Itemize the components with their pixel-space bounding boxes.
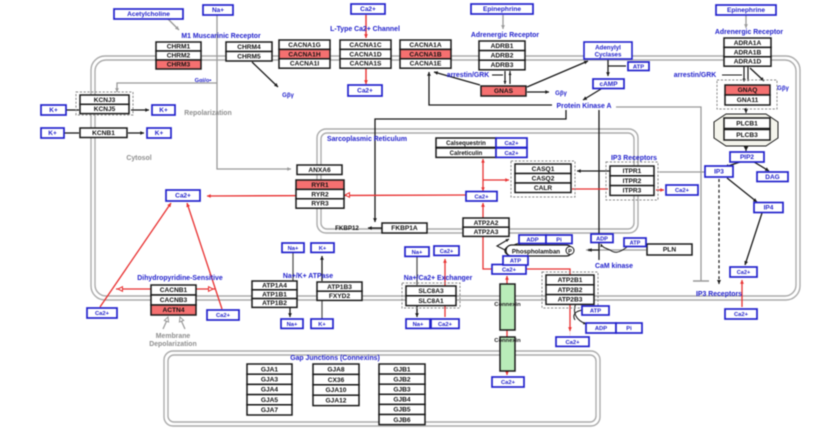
harpoons ADRB-GNAS [505,71,510,84]
ion K+ 1 [41,105,66,115]
svg-text:Ca2+: Ca2+ [474,194,489,200]
svg-text:GJB1: GJB1 [393,366,411,373]
group GNAQ [717,80,777,109]
ion K+ 2 [152,105,175,115]
svg-text:arrestin/GRK: arrestin/GRK [447,72,490,79]
svg-text:K+: K+ [49,107,58,114]
svg-text:GJA12: GJA12 [326,398,347,405]
svg-text:Epinephrine: Epinephrine [727,7,765,14]
wire arrestin to harpoons [492,74,503,76]
SERCA pump ATP2A3 [463,227,509,236]
wire connexin Ca2+ up arrowhead [505,276,509,280]
svg-text:K+: K+ [159,107,168,114]
wire PLN to phospholamban [586,249,646,251]
gap junction GJB GJB5 [379,404,425,414]
ion Na+ NCX top [405,247,429,256]
wire Ca2+ calsequestrin exchange arrowhead [481,159,485,163]
ATP ATP2B [582,306,609,315]
alpha adrenergic receptor ADRA1D [724,57,771,66]
G protein GNA11 [725,95,770,105]
svg-text:CACNA1A: CACNA1A [409,42,441,49]
IP3 box [705,166,733,177]
wire CACNB left [116,288,151,290]
svg-text:cAMP: cAMP [599,81,618,88]
svg-text:Sarcoplasmic Reticulum: Sarcoplasmic Reticulum [327,136,407,143]
wire AC to cAMP arrowhead [606,72,610,76]
wire Ca2+ entry right arrowhead [186,203,190,207]
wire PIP2 to IP3 [725,162,740,167]
wire ATP2B Ca2+ down arrowhead [569,334,571,336]
wire CALR to ITPR3 [572,188,608,190]
ion Ca2+ right out [725,309,757,319]
wire GNAS to adenylyl cyclase [527,61,588,87]
svg-text:ATP2B2: ATP2B2 [558,287,583,294]
NCX SLC8A SLC8A1 [406,296,456,306]
svg-text:ADP: ADP [595,326,607,332]
annexin ANXA6 [297,165,342,175]
connexin channel upper [500,284,515,330]
wire K+ out of pump [321,256,323,281]
svg-text:Na+/Ca2+ Exchanger: Na+/Ca2+ Exchanger [404,275,473,282]
open arrowhead CACNB left [118,287,123,292]
wire fork to GNAQ right arrowhead [760,77,764,81]
wire Ca2+ out of L-type [365,69,367,84]
svg-text:ADRA1A: ADRA1A [734,40,762,47]
ion Ca2+ bottom mid [207,310,239,320]
NCX SLC8A SLC8A3 [406,286,456,296]
wire IP3 to IP3 receptors dashed arrowhead [717,280,721,284]
wire connexin Ca2+ down [506,369,508,375]
wire PIP2 to DAG [754,162,769,171]
svg-text:GJB6: GJB6 [393,417,411,424]
wire GNAS to adenylyl cyclase arrowhead [584,61,588,64]
wire K+ out KCNJ arrowhead [145,108,149,112]
svg-text:GJA8: GJA8 [327,366,345,373]
wire Ca2+ to CASQ group arrowhead [505,178,509,182]
gap junction cell inner [168,355,596,422]
wire cAMP to PKA [583,89,601,100]
svg-text:Acetylcholine: Acetylcholine [127,11,170,18]
gap junction GJA GJA4 [247,384,292,394]
wire CHRM5 to Gbg [252,62,278,87]
L-type channel 1 CACNA1D [340,49,391,58]
svg-text:CASQ1: CASQ1 [532,166,555,173]
svg-text:ADRA1B: ADRA1B [734,49,762,56]
wire PIP2 to IP3 arrowhead [725,164,729,168]
svg-text:Ca2+: Ca2+ [737,270,751,276]
curve ATP-ADP phospholamban [505,243,521,256]
cell membrane inner [95,60,796,296]
sarcoplasmic reticulum inner [321,133,634,229]
wire PKA CaM stub [598,250,600,260]
wire connexin Ca2+ up [506,276,508,284]
gap junction GJB GJB6 [379,415,425,425]
svg-text:Ca2+: Ca2+ [565,340,580,346]
wire epinephrine to ADRA [745,15,747,28]
IP3 receptor ITPR ITPR3 [610,186,654,196]
PMCA ATP2B ATP2B1 [546,275,594,285]
wire FKBP1A to FKBP12 [368,227,382,229]
ADP ATP2B [586,323,616,333]
ion Na+ NCX bottom [406,319,430,328]
group KCNJ [76,92,133,115]
svg-text:Na+: Na+ [288,246,299,252]
svg-text:GNA11: GNA11 [737,97,759,104]
wire Ca2+ entry left [100,203,171,307]
wire PMCA to Ca2+ out [569,331,571,336]
wire phospholamban to ATP2A arrowhead [505,239,509,242]
dihydropyridine CACNB ACTN4 [151,305,196,315]
svg-text:ATP: ATP [630,240,641,246]
ion Na+ top [203,5,233,15]
M1 receptor CHRM CHRM2 [156,51,201,60]
svg-text:GNAS: GNAS [494,88,514,95]
ion Ca2+ bottom left [87,308,117,318]
svg-text:ATP2B3: ATP2B3 [558,297,583,304]
svg-text:Ca2+: Ca2+ [440,249,454,255]
K channel KCNB1 [80,128,127,138]
G protein GNAQ [725,85,770,95]
svg-text:Na+: Na+ [412,250,423,256]
open arrowhead CACNB right [209,287,214,292]
gap junction GJB GJB3 [379,384,425,394]
svg-text:FKBP12: FKBP12 [335,225,359,232]
svg-text:ATP: ATP [633,64,644,70]
wire Na+ out of pump arrowhead [288,313,292,317]
wire epinephrine to ADRA arrowhead [744,24,748,28]
svg-text:Membrane: Membrane [156,333,191,340]
M1 receptor CHRM2grp CHRM4 [226,42,272,52]
ligand epinephrine left [471,4,533,14]
IP3 receptor ITPR ITPR1 [610,166,654,176]
curve ATP2B ATP [574,303,586,324]
svg-text:GJB5: GJB5 [393,407,411,414]
N-type channel CACNA1B [400,49,451,58]
DAG box [757,172,788,182]
svg-text:CX36: CX36 [328,377,345,384]
svg-text:Ca2+: Ca2+ [504,141,519,147]
wire PKA to phospholamban arrowhead [588,248,592,252]
ion Na+ pump bottom [281,319,303,328]
svg-text:Connexin: Connexin [494,338,521,344]
ion Ca2+ NCX bottom [431,319,459,328]
ion K+ pump top [311,243,334,252]
alpha adrenergic receptor ADRA1B [724,47,771,56]
svg-text:Pi: Pi [556,237,562,243]
ion Ca2+ ITPR out [666,185,698,195]
wire NCX Ca2+ in [444,259,446,317]
svg-text:GJA10: GJA10 [326,387,347,394]
wire SERCA pump arrowhead [481,203,485,207]
svg-text:CACNA1S: CACNA1S [350,61,382,68]
svg-text:GJA7: GJA7 [261,407,279,414]
svg-text:ITPR3: ITPR3 [623,188,642,195]
wire PLCB to PIP2 arrowhead [744,147,749,152]
wire phospholamban to ATP2A [497,239,509,251]
svg-text:RYR2: RYR2 [311,191,329,198]
svg-text:ATP1B1: ATP1B1 [262,291,287,298]
wire ITPR1 to CASQ1 [577,170,610,172]
svg-text:GJA5: GJA5 [261,397,279,404]
NaK ATPase beta ATP1B3 [317,282,362,291]
svg-text:IP3 Receptors: IP3 Receptors [611,155,657,162]
wire GNAS to CACNA1E [434,72,480,85]
ryanodine receptor RYR1 [296,180,344,189]
svg-text:ATP: ATP [510,259,521,265]
wire GNAQ to PLCB arrowhead [744,109,749,114]
ion Ca2+ NCX top [434,246,459,255]
wire cAMP to PKA arrowhead [583,96,587,100]
svg-text:CALR: CALR [534,185,553,192]
svg-text:Gap Junctions (Connexins): Gap Junctions (Connexins) [290,355,380,362]
IP3 receptor ITPR ITPR2 [610,176,654,186]
wire IP3 to IP4 [727,178,757,202]
gap junction GJA GJA3 [247,374,292,384]
svg-text:K+: K+ [48,130,57,137]
svg-text:ADP: ADP [526,237,538,243]
svg-text:Ca2+: Ca2+ [502,267,517,273]
svg-text:CACNB3: CACNB3 [160,297,188,304]
ion Ca2+ top [351,4,385,14]
svg-text:RYR1: RYR1 [311,182,329,189]
wire PLN to phospholamban arrowhead [586,248,590,252]
ADP phospholamban [519,235,546,244]
svg-text:Calsequestrin: Calsequestrin [446,141,486,147]
wire PKA to IP3 receptors [616,107,701,281]
svg-text:ATP2B1: ATP2B1 [558,277,583,284]
svg-text:Epinephrine: Epinephrine [483,6,521,13]
ion Ca2+ gap junction [492,377,524,387]
svg-text:ATP1B3: ATP1B3 [327,284,352,291]
ligand acetylcholine [114,9,183,19]
wire PKA to L-type channel arrowhead [427,72,431,76]
wire Na+ influx to ANXA6 [217,15,291,169]
ATP SERCA [503,256,528,265]
svg-text:ANXA6: ANXA6 [308,167,331,174]
wire PKA to phospholamban [588,110,599,250]
svg-text:ACTN4: ACTN4 [163,307,185,314]
svg-text:Ca2+: Ca2+ [357,88,373,95]
group CASQ [511,161,575,197]
wire Na+ into pump [292,252,294,281]
svg-text:Pi: Pi [626,326,632,332]
M1 receptor CHRM CHRM1 [156,42,201,51]
wire IP4 to Ca2+ arrowhead [744,261,748,265]
wire FKBP1A to FKBP12 arrowhead [368,226,372,230]
svg-text:Na+/K+ ATPase: Na+/K+ ATPase [283,273,333,280]
wire Gi/o to KCNJ3 arrowhead [115,88,119,92]
wire PMCA pump [526,269,570,331]
L-type channel 1 CACNA1S [340,59,391,68]
group ITPR [606,162,658,200]
T-type channel CACNA1I [279,59,330,68]
ion Ca2+ calsequestrin [496,138,527,147]
NaK ATPase alpha ATP1A4 [252,281,297,290]
wire GNAS to Gbg arrowhead [545,90,549,94]
L-type channel 1 CACNA1C [340,40,391,49]
svg-text:GJB4: GJB4 [393,397,411,404]
svg-text:Dihydropyridine-Sensitive: Dihydropyridine-Sensitive [137,275,223,282]
wire arrestin2 to harpoons [722,74,742,76]
ADP CaM [591,234,613,243]
dihydropyridine CACNB CACNB1 [151,285,196,295]
svg-text:RYR3: RYR3 [311,201,329,208]
gap junction GJA GJA1 [247,364,292,374]
NaK ATPase alpha ATP1B2 [252,299,297,308]
svg-text:CACNA1H: CACNA1H [288,51,320,58]
svg-text:Protein Kinase A: Protein Kinase A [557,103,612,110]
svg-text:Adenylyl: Adenylyl [595,45,621,52]
cell membrane outer [91,56,800,300]
wire SERCA pump [483,203,492,269]
wire K+ in KCNJ [66,109,79,111]
harpoons ADRA-GNAQ [744,67,748,81]
ligand epinephrine right [716,5,776,15]
PLC octagon [714,114,778,146]
svg-text:Gαi/o•: Gαi/o• [195,78,212,84]
wire ITPR3 to Ca2+ [656,189,664,191]
svg-text:ATP2A2: ATP2A2 [474,220,499,227]
beta adrenergic receptor ADRB1 [479,41,525,51]
svg-text:Gβγ: Gβγ [777,86,789,92]
svg-text:Na+: Na+ [287,322,298,328]
ion Ca2+ calreticulin [496,148,527,157]
M1 receptor CHRM CHRM3 [156,60,201,69]
svg-text:KCNJ3: KCNJ3 [94,97,116,104]
ion Ca2+ PMCA out [556,337,589,346]
ATP top [628,62,649,71]
svg-text:DAG: DAG [765,174,779,181]
wire K+ in KCNB1 [64,132,79,134]
gap junction col2 GJA10 [313,385,359,395]
gap junction GJB GJB4 [379,394,425,404]
svg-text:CASQ2: CASQ2 [532,175,555,182]
svg-text:GJA3: GJA3 [261,377,279,384]
wire K+ out KCNJ [131,109,149,111]
svg-text:ATP2A3: ATP2A3 [474,229,499,236]
svg-text:Ca2+: Ca2+ [734,312,749,318]
wire PIP2 to DAG arrowhead [765,167,769,171]
wire acetylcholine to receptor [168,19,179,30]
gap junction GJB GJB1 [379,364,425,374]
svg-text:ATP: ATP [590,309,601,315]
svg-text:Connexin: Connexin [494,302,521,308]
K channel KCNJ KCNJ5 [80,104,129,113]
svg-text:Gβγ: Gβγ [282,93,294,99]
PMCA ATP2B ATP2B3 [546,295,594,305]
wire Ca2+ right up arrowhead [740,280,744,284]
wire PKA to FKBP arrowhead [373,218,377,222]
svg-text:GJA1: GJA1 [261,366,279,373]
wire connexin Ca2+ down arrowhead [505,371,509,375]
svg-text:Phospholamban: Phospholamban [512,248,560,255]
svg-text:PLN: PLN [663,247,676,254]
CASQ group CALR [515,183,571,193]
PLCB1 box [724,118,770,129]
ion K+ pump bottom [311,319,333,328]
wire Ca2+ right up [741,280,743,307]
svg-text:CACNA1D: CACNA1D [349,51,381,58]
phospholamban [506,245,572,256]
wire fork to GNAQ right [750,68,764,81]
gap junction GJB GJB2 [379,374,425,384]
svg-text:CACNA1C: CACNA1C [349,42,381,49]
svg-text:GNAQ: GNAQ [738,87,758,94]
gap junction col2 CX36 [313,374,359,384]
wire Ca2+ into L-type [365,15,367,38]
T-type channel CACNA1G [279,40,330,49]
svg-text:K+: K+ [155,130,164,137]
dihydropyridine CACNB CACNB3 [151,295,196,305]
svg-text:ATP1B2: ATP1B2 [262,300,287,307]
svg-text:Calreticulin: Calreticulin [450,151,483,157]
wire GNAQ to PLCB [745,108,747,113]
membrane depolarization arrows [163,318,185,329]
svg-text:CHRM4: CHRM4 [237,44,261,51]
sarcoplasmic reticulum outer [317,129,638,233]
svg-text:Ca2+: Ca2+ [438,322,453,328]
svg-text:ADRB2: ADRB2 [491,53,514,60]
beta adrenergic receptor ADRB2 [479,51,525,61]
svg-text:KCNB1: KCNB1 [92,130,115,137]
T-type channel CACNA1H [279,49,330,58]
wire epinephrine to ADRB arrowhead [501,25,505,29]
gap junction GJA GJA7 [247,405,292,415]
SERCA pump ATP2A2 [463,218,509,227]
svg-text:Ca2+: Ca2+ [216,313,231,319]
svg-text:K+: K+ [319,246,327,252]
wire K+ out KCNB1 arrowhead [140,131,144,135]
ryanodine receptor RYR2 [296,189,344,198]
wire epinephrine to ADRB [502,15,504,29]
svg-text:ADRB1: ADRB1 [491,43,514,50]
svg-text:CACNA1I: CACNA1I [290,61,319,68]
wire ITPR to IP3 [659,171,706,173]
wire Ca2+ entry right [187,203,222,309]
svg-text:Ca2+: Ca2+ [175,193,191,200]
wire Na+ out of pump [289,307,291,317]
svg-text:CACNB1: CACNB1 [160,287,188,294]
svg-text:Ca2+: Ca2+ [675,188,690,194]
svg-text:CACNA1G: CACNA1G [288,42,321,49]
svg-text:L-Type Ca2+ Channel: L-Type Ca2+ Channel [330,26,400,33]
alpha adrenergic receptor ADRA1A [724,38,771,47]
svg-text:K+: K+ [318,322,326,328]
wire IP3 to IP4 arrowhead [753,198,757,202]
ryanodine receptor RYR3 [296,199,344,208]
T-bar inhibition IP3 receptors [693,280,709,282]
gap junction cell outer [164,351,600,426]
svg-text:CHRM1: CHRM1 [167,44,191,51]
CASQ group CASQ1 [515,164,571,174]
svg-text:ATP1A4: ATP1A4 [262,283,287,290]
wire Na+ into NCX [416,256,418,285]
wire GNAS to CACNA1E arrowhead [434,71,438,75]
wire PMCA to Ca2+ out arrowhead [569,335,571,337]
svg-text:ITPR2: ITPR2 [623,178,642,185]
svg-text:GJB2: GJB2 [393,376,411,383]
svg-text:Gβγ: Gβγ [555,91,567,97]
ion K+ 3 [41,128,64,138]
svg-text:CaM kinase: CaM kinase [595,263,633,270]
calreticulin box [436,148,496,157]
svg-text:PIP2: PIP2 [740,154,754,161]
svg-text:ITPR1: ITPR1 [623,168,642,175]
svg-text:IP3: IP3 [714,169,724,176]
ATP CaM [624,238,646,247]
svg-text:FKBP1A: FKBP1A [391,225,418,232]
ion Ca2+ cytosol [166,190,200,201]
